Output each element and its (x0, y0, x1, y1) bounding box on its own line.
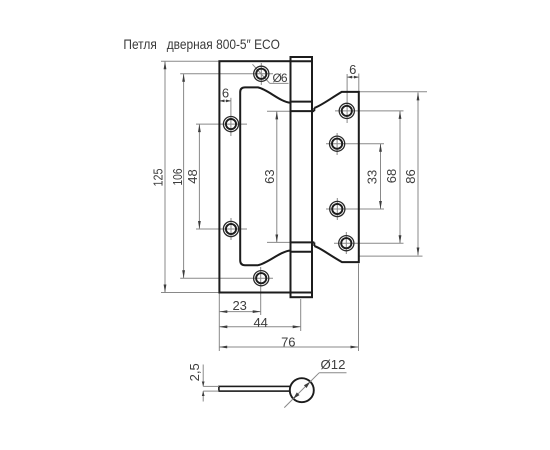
diameter 12 leader diagonal (284, 373, 319, 408)
hole G inner (332, 204, 342, 214)
centerline hole B vertical + 6L ext (230, 98, 232, 136)
side strip (leaf edge-on) (219, 386, 290, 391)
hole F outer (330, 136, 345, 151)
ext/centerline hole D horizontal (180, 277, 273, 279)
ext/centerline hole C horizontal (196, 228, 247, 230)
svg-text:6: 6 (222, 86, 229, 101)
right leaf step vertical bottom (313, 242, 315, 246)
svg-text:23: 23 (232, 298, 246, 313)
ext bottom-left shared 23/44/76 (218, 294, 220, 352)
dimension 86 line (417, 92, 419, 255)
svg-text:Ø12: Ø12 (321, 357, 346, 372)
dimension 76 line (219, 346, 358, 348)
hole F inner (332, 139, 342, 149)
diameter 12 arrow lower-left (293, 392, 299, 398)
dimension 63 line (276, 111, 278, 242)
hole H inner (341, 238, 351, 248)
svg-text:125: 125 (151, 169, 166, 187)
ext 63 bottom (267, 241, 290, 243)
hole A inner (256, 69, 266, 79)
ext/centerline hole F horizontal (326, 143, 384, 145)
dimension 6 left line (219, 100, 231, 102)
dimension 125 line (164, 61, 166, 292)
hole C outer (223, 221, 238, 236)
svg-text:48: 48 (185, 169, 200, 183)
dimension 44 line (219, 326, 300, 328)
svg-text:33: 33 (365, 170, 380, 184)
diameter 6 leader (253, 64, 289, 83)
right leaf step vertical top (313, 108, 315, 111)
dimension 2,5 (203, 365, 219, 402)
svg-text:Петля дверная 800-5″ ECO: Петля дверная 800-5″ ECO (123, 37, 280, 52)
hinge barrel (291, 57, 313, 297)
diameter 12 leader underline (319, 372, 346, 374)
knuckle line y251.8 (291, 251, 313, 253)
diameter 12 arrow upper-right (304, 382, 310, 388)
main view thick outlines (219, 57, 358, 297)
knuckle line y242.4 to step (291, 241, 315, 243)
ext line 125 top (161, 60, 219, 62)
dimension 48 line (198, 124, 200, 229)
dimension lines with arrows (165, 61, 418, 347)
dimension 68 line (399, 111, 401, 243)
ext 2,5 top (203, 385, 219, 387)
svg-text:2,5: 2,5 (187, 363, 202, 381)
centerline hole E vertical + 6R ext (346, 74, 348, 123)
ext 86 bottom (360, 255, 423, 257)
hole E inner (342, 106, 352, 116)
ext 76 right (358, 264, 360, 352)
centerline hole H vertical (345, 232, 347, 254)
knuckle line top (leaf top edge across barrel) (291, 60, 313, 62)
svg-text:76: 76 (281, 334, 295, 349)
centerline hole D vertical + 23 ext (260, 267, 262, 315)
hole G outer (330, 201, 345, 216)
hole C inner (226, 224, 236, 234)
centerline hole F vertical (336, 133, 338, 155)
dimension 23 line (219, 311, 260, 313)
ext line 125 bottom (161, 292, 219, 294)
knuckle line y101.6 (291, 101, 313, 103)
svg-text:44: 44 (253, 315, 267, 330)
centerline hole A vertical (260, 63, 262, 85)
hole E outer (339, 103, 354, 118)
hole B inner (226, 119, 236, 129)
ext/centerline hole E horizontal (335, 110, 404, 112)
svg-text:106: 106 (170, 169, 185, 186)
svg-text:6: 6 (349, 62, 356, 77)
centerline hole G vertical (336, 198, 338, 220)
hole D inner (256, 273, 266, 283)
dimension 6 right line (347, 76, 359, 78)
ext 2,5 bottom (203, 390, 219, 392)
ext/centerline hole G horizontal (326, 208, 384, 210)
svg-text:Ø6: Ø6 (273, 71, 288, 85)
knuckle line y111.1 to step (291, 110, 315, 112)
right leaf outline (314, 92, 359, 262)
dimension 33 line (380, 144, 382, 209)
svg-text:86: 86 (403, 169, 418, 183)
ext 86 top (360, 91, 428, 93)
thin centerlines and extension lines (161, 61, 427, 351)
ext 63 top (267, 110, 290, 112)
hole D outer (254, 271, 269, 286)
hole B outer (223, 117, 238, 132)
ext/centerline hole B horizontal (196, 123, 247, 125)
hole H outer (339, 236, 354, 251)
ext 44 barrel centerline (300, 299, 302, 331)
hole A outer (254, 66, 269, 81)
left leaf inner contour (240, 87, 290, 265)
centerline hole C vertical (230, 218, 232, 240)
ext/centerline hole H horizontal (334, 242, 404, 244)
svg-text:63: 63 (262, 169, 277, 183)
svg-text:68: 68 (384, 169, 399, 183)
dimension texts (151, 62, 418, 349)
left leaf outline (219, 61, 290, 292)
barrel circle (290, 378, 314, 402)
ext 6R right edge (358, 74, 360, 92)
ext/centerline hole A horizontal (180, 73, 273, 75)
knuckle line bottom (leaf bottom edge across barrel) (291, 292, 313, 294)
dimension 106 line (183, 74, 185, 278)
